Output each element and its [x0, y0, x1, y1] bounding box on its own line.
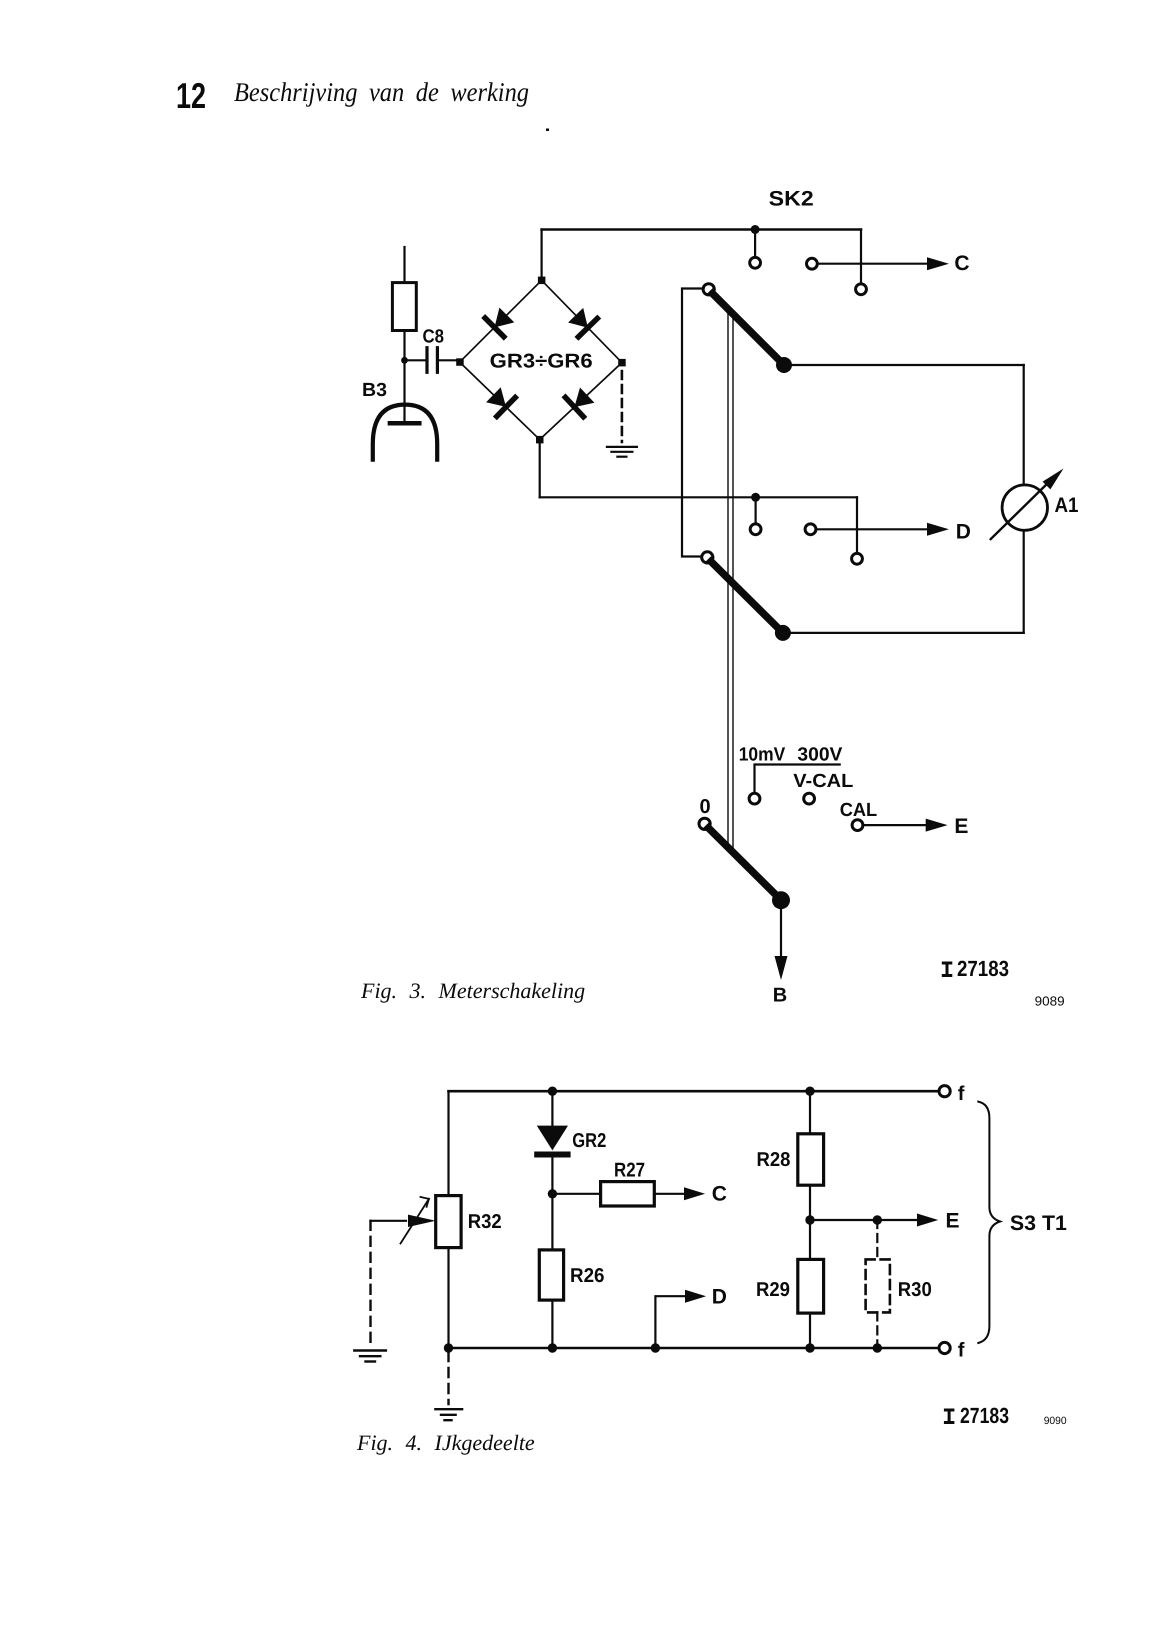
wire to arrow C: [818, 263, 929, 265]
coupling wire right: [732, 315, 734, 852]
dashed wire R30 bottom: [876, 1312, 878, 1348]
bridge edge top-right: [542, 280, 622, 362]
meter A1 arrow: [991, 480, 1051, 539]
lever 0 contact circle: [699, 818, 710, 829]
stray period: [546, 129, 549, 132]
svg-text:27183: 27183: [960, 1403, 1009, 1428]
R32 wiper head: [408, 1215, 436, 1227]
bridge edge bottom-left: [460, 362, 540, 440]
node bridge bottom: [536, 436, 544, 444]
coupling wire left: [727, 310, 729, 847]
drawing number I 27183 (fig 4): [944, 1403, 1009, 1428]
svg-text:300V: 300V: [797, 745, 842, 766]
svg-text:D: D: [956, 521, 971, 544]
potentiometer R32 body: [436, 1196, 461, 1248]
contact circle row D pos2: [805, 524, 816, 535]
diode GR4 (top-right arm): [568, 308, 597, 337]
svg-text:GR3÷GR6: GR3÷GR6: [490, 351, 593, 373]
node on top bus: [751, 225, 760, 234]
svg-text:C: C: [954, 252, 969, 275]
wire resistor bottom to node: [403, 331, 405, 361]
svg-text:A1: A1: [1055, 494, 1079, 517]
node bottom R29: [805, 1343, 814, 1352]
svg-text:V-CAL: V-CAL: [793, 771, 853, 792]
wire node down to cathode: [403, 360, 405, 421]
arrow C (fig4): [684, 1187, 705, 1200]
left vertical fig4 (lower): [447, 1248, 449, 1348]
contact circle row C pos3: [856, 284, 867, 295]
diode GR3 (top-left arm): [485, 308, 514, 337]
wire top bus to GR2: [551, 1091, 553, 1125]
wire bridge bottom down: [539, 440, 541, 498]
contact circle CAL: [852, 820, 863, 831]
wire CAL to arrow E: [864, 824, 927, 826]
wire down to meter: [1023, 365, 1025, 485]
dashed wire wiper to ground: [369, 1221, 371, 1344]
wire lever1 to meter branch: [784, 364, 1024, 366]
dashed wire bridge right to ground: [621, 371, 624, 442]
terminal f top: [939, 1086, 950, 1097]
lever 2 pivot blob: [775, 625, 791, 641]
arrow D: [927, 523, 949, 536]
stub top bus right end down: [860, 230, 862, 284]
lever 1 pivot blob: [776, 357, 792, 373]
svg-text:R32: R32: [468, 1211, 502, 1233]
svg-text:CAL: CAL: [840, 800, 878, 821]
svg-text:S3 T1: S3 T1: [1010, 1212, 1067, 1235]
svg-text:R26: R26: [570, 1265, 605, 1287]
top bus fig4: [449, 1090, 939, 1093]
dashed wire to R30 top: [876, 1220, 878, 1259]
contact circle row D pos3: [852, 553, 863, 564]
svg-text:f: f: [958, 1083, 965, 1105]
node bridge right: [618, 359, 626, 367]
lever 2 contact circle: [702, 552, 713, 563]
R32 wiper wire: [371, 1220, 407, 1222]
terminal f bottom: [939, 1342, 950, 1353]
resistor R30 (dashed): [866, 1259, 890, 1312]
wire pivot down to B: [780, 900, 782, 958]
bridge edge bottom-right: [540, 363, 622, 440]
node junction dot: [401, 357, 408, 364]
wire node E down to R29: [809, 1220, 811, 1259]
contact circle V-CAL: [804, 793, 815, 804]
wire R28 to node E: [809, 1185, 811, 1220]
svg-text:9089: 9089: [1035, 994, 1065, 1009]
capacitor C8: [427, 348, 437, 373]
ground (fig4 bottom): [435, 1409, 462, 1420]
node C branch: [548, 1189, 557, 1198]
node E branch: [805, 1215, 814, 1224]
brace S3 T1: [978, 1102, 1000, 1343]
ground (bridge): [607, 447, 637, 457]
resistor R27: [601, 1182, 655, 1206]
drawing number I 27183 (fig 3): [942, 956, 1009, 981]
diode GR5 (bottom-left arm): [486, 387, 515, 416]
svg-text:R28: R28: [757, 1149, 791, 1171]
svg-text:E: E: [954, 815, 968, 838]
bottom bus fig4: [449, 1347, 939, 1350]
node top bus R28: [805, 1087, 814, 1096]
wire R26 to bottom bus: [551, 1300, 553, 1348]
svg-text:9090: 9090: [1044, 1415, 1067, 1427]
arrow B: [775, 956, 788, 980]
tube B3 envelope: [373, 405, 437, 460]
svg-text:Fig. 3. Meterschakeling: Fig. 3. Meterschakeling: [360, 978, 585, 1003]
node R30 top: [873, 1215, 882, 1224]
ground (wiper): [354, 1351, 386, 1362]
wire GR2 to node: [551, 1157, 553, 1194]
svg-text:B3: B3: [362, 380, 387, 401]
wire R27 to arrow C: [654, 1193, 685, 1195]
svg-text:12: 12: [176, 75, 206, 116]
node on mid bus: [751, 493, 760, 502]
wire node down to R26: [551, 1194, 553, 1250]
node bridge top: [538, 277, 546, 285]
arrow E (fig4): [917, 1214, 938, 1227]
left vertical fig4 (upper): [447, 1091, 449, 1195]
resistor R29: [798, 1259, 824, 1313]
tube B3 cathode bar: [390, 421, 419, 426]
svg-text:Beschrijving van de werking: Beschrijving van de werking: [234, 77, 529, 107]
D branch vertical: [655, 1296, 686, 1348]
svg-text:10mV: 10mV: [739, 745, 786, 766]
wire top bus to R28: [809, 1091, 811, 1134]
lever 1 (switch blade): [713, 294, 783, 364]
node bridge left: [456, 358, 464, 366]
stub to contact: [754, 497, 756, 523]
wire R29 to bottom bus: [809, 1313, 811, 1348]
bracket line under labels: [755, 765, 840, 793]
left rail of SK2: [682, 289, 702, 557]
mid bus wire: [540, 496, 857, 498]
resistor R26: [539, 1250, 563, 1300]
lever 0 (switch blade): [709, 828, 779, 898]
svg-text:B: B: [773, 985, 787, 1007]
contact circle row C pos1: [750, 257, 761, 268]
wire to arrow D: [817, 528, 929, 530]
lever 0 pivot blob: [772, 891, 790, 909]
svg-text:SK2: SK2: [769, 188, 814, 211]
lever 2 (switch blade): [711, 562, 781, 631]
wire meter down: [1023, 530, 1025, 633]
svg-text:R27: R27: [614, 1160, 645, 1182]
stub to contact: [754, 230, 756, 257]
node top bus GR2: [548, 1087, 557, 1096]
bridge edge top-left: [460, 280, 542, 362]
wire node to C8: [405, 359, 426, 361]
node bottom D: [651, 1343, 660, 1352]
diode GR2: [537, 1126, 568, 1151]
dashed wire below bottom bus left: [447, 1352, 449, 1404]
wire bridge top up: [540, 230, 542, 281]
svg-text:C: C: [712, 1183, 727, 1206]
arrow E: [926, 819, 948, 832]
R32 adjust arrow: [401, 1197, 429, 1244]
node bottom R26: [548, 1343, 557, 1352]
top bus wire: [542, 228, 861, 231]
node bottom R30: [873, 1343, 882, 1352]
svg-text:Fig. 4. IJkgedeelte: Fig. 4. IJkgedeelte: [356, 1430, 535, 1455]
svg-text:f: f: [958, 1340, 965, 1362]
wire node to R27: [552, 1193, 600, 1195]
svg-text:R30: R30: [898, 1279, 932, 1301]
arrow C: [927, 257, 949, 270]
svg-text:C8: C8: [423, 327, 445, 348]
arrow D (fig4): [685, 1290, 706, 1303]
svg-text:GR2: GR2: [572, 1130, 606, 1152]
lever 1 contact circle: [703, 284, 714, 295]
resistor R28: [798, 1134, 824, 1185]
contact circle row C pos2: [807, 258, 818, 269]
svg-text:R29: R29: [756, 1279, 790, 1301]
wire node E to arrow: [810, 1219, 921, 1221]
svg-text:0: 0: [700, 796, 711, 818]
svg-text:27183: 27183: [957, 956, 1009, 981]
stub mid bus right end down: [856, 497, 858, 552]
diode GR6 (bottom-right arm): [565, 388, 594, 417]
svg-text:D: D: [712, 1286, 727, 1309]
meter A1 circle: [1002, 485, 1047, 530]
contact circle row D pos1: [750, 524, 761, 535]
resistor (unlabeled, series with B3): [392, 283, 416, 331]
wire top of resistor: [403, 247, 405, 283]
wire lever2 to meter bottom: [783, 632, 1024, 634]
contact circle 10mV: [749, 793, 760, 804]
svg-text:E: E: [946, 1210, 960, 1233]
wire C8 to bridge: [439, 359, 460, 361]
node bottom left: [444, 1343, 453, 1352]
